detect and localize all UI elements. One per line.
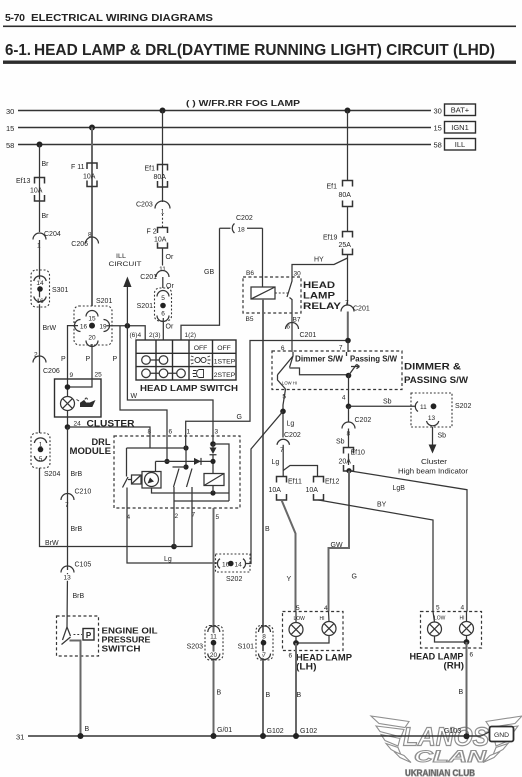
svg-text:5-70: 5-70 xyxy=(5,12,25,24)
svg-text:HI: HI xyxy=(320,616,325,622)
splice S202 pins 11/13 xyxy=(411,393,452,427)
svg-text:BrW: BrW xyxy=(43,325,57,332)
svg-text:(6)4: (6)4 xyxy=(130,332,142,339)
svg-text:(LH): (LH) xyxy=(296,662,317,673)
lamp RH hi xyxy=(460,622,474,636)
bus line 15 xyxy=(18,127,431,129)
dimmer contact xyxy=(278,352,349,375)
ground node G/01 xyxy=(211,733,217,739)
svg-text:25: 25 xyxy=(95,372,103,379)
wire BrW down-right to DRL pin2 xyxy=(40,468,175,547)
svg-text:GND: GND xyxy=(494,732,509,739)
junction ILL branch xyxy=(125,323,131,329)
svg-text:Passing S/W: Passing S/W xyxy=(350,355,397,364)
junction Sb xyxy=(346,404,352,410)
svg-text:25A: 25A xyxy=(339,242,352,249)
svg-text:Or: Or xyxy=(166,254,174,261)
svg-text:10A: 10A xyxy=(306,487,319,494)
wire B7 to dimmer pin 6 xyxy=(291,313,293,352)
svg-text:Lg: Lg xyxy=(272,459,280,466)
svg-text:Ef1: Ef1 xyxy=(145,166,156,173)
cluster lamp symbol xyxy=(61,397,75,411)
svg-text:P: P xyxy=(86,631,92,640)
svg-text:Dimmer S/W: Dimmer S/W xyxy=(295,355,343,364)
splice S201 pins 15/16/19/20 xyxy=(74,306,112,345)
wire Br from line 58 xyxy=(39,145,41,233)
dashed optional wire xyxy=(162,214,164,227)
svg-text:C210: C210 xyxy=(75,489,92,496)
ground bus 31 xyxy=(28,735,481,737)
svg-text:C201: C201 xyxy=(353,306,370,313)
svg-text:2(3): 2(3) xyxy=(149,332,161,339)
svg-text:HI: HI xyxy=(460,616,465,622)
ground node G103 xyxy=(464,733,470,739)
svg-text:30: 30 xyxy=(434,107,442,116)
DRL diode rail xyxy=(156,461,214,471)
wire oil switch to ground xyxy=(70,641,81,737)
svg-text:10A: 10A xyxy=(30,188,43,195)
svg-text:6: 6 xyxy=(161,311,165,318)
wire to relay coil B6 xyxy=(262,228,264,287)
svg-text:30: 30 xyxy=(6,107,14,116)
svg-text:HEAD LAMP & DRL(DAYTIME RUNNIN: HEAD LAMP & DRL(DAYTIME RUNNING LIGHT) C… xyxy=(34,42,495,59)
wire S201-19 to switch pin (6)4 xyxy=(107,326,146,340)
svg-text:4: 4 xyxy=(461,605,465,612)
svg-text:B: B xyxy=(266,692,271,699)
svg-text:20A: 20A xyxy=(339,459,352,466)
svg-text:S202: S202 xyxy=(455,403,471,410)
svg-text:7: 7 xyxy=(339,345,343,352)
fuse Ef1 80A left xyxy=(158,165,168,188)
svg-text:Or: Or xyxy=(166,324,174,331)
wire HY to relay pin 30 xyxy=(292,258,348,277)
svg-text:10A: 10A xyxy=(269,487,282,494)
svg-text:P: P xyxy=(86,356,91,363)
wire G relay output xyxy=(186,341,348,437)
svg-text:14: 14 xyxy=(36,280,44,287)
junction line30/Ef1 left xyxy=(160,108,166,114)
svg-text:7: 7 xyxy=(65,502,69,509)
svg-text:(RH): (RH) xyxy=(444,661,465,672)
branch to Ef12 xyxy=(283,466,317,477)
svg-text:BY: BY xyxy=(377,502,387,509)
wire to S301 xyxy=(39,240,41,433)
svg-text:13: 13 xyxy=(428,415,436,422)
lamp LH low xyxy=(289,623,303,637)
splice S204 pins 1/5 xyxy=(31,433,50,468)
svg-text:Ef10: Ef10 xyxy=(351,450,366,457)
relay coil xyxy=(251,287,275,299)
svg-text:B: B xyxy=(297,692,302,699)
svg-text:6: 6 xyxy=(289,653,293,660)
svg-text:Sb: Sb xyxy=(438,433,447,440)
svg-text:58: 58 xyxy=(434,141,442,150)
svg-text:C105: C105 xyxy=(75,562,92,569)
svg-text:11: 11 xyxy=(210,634,217,641)
svg-text:Sb: Sb xyxy=(336,439,345,446)
svg-text:80A: 80A xyxy=(339,192,352,199)
splice S202 pins 16/14 xyxy=(216,554,251,572)
wire DRL pin2/7 to BrW xyxy=(174,508,192,547)
svg-text:DIMMER &: DIMMER & xyxy=(404,362,461,373)
svg-text:RELAY: RELAY xyxy=(303,301,342,311)
svg-text:19: 19 xyxy=(99,324,107,331)
wire from line 15 down xyxy=(91,128,93,307)
watermark lanos clan xyxy=(371,716,522,763)
svg-text:5: 5 xyxy=(39,456,43,463)
DRL bottom rail xyxy=(152,488,230,493)
svg-text:13: 13 xyxy=(64,575,72,582)
svg-text:Ef13: Ef13 xyxy=(16,178,31,185)
svg-text:5: 5 xyxy=(296,605,300,612)
wire Y to LH low xyxy=(282,500,296,612)
svg-text:5: 5 xyxy=(216,514,220,521)
wire GB to switch pin 1(2) xyxy=(181,228,220,340)
svg-text:15: 15 xyxy=(88,316,96,323)
svg-text:B: B xyxy=(85,726,90,733)
fuse Ef10 20A xyxy=(344,448,354,472)
DRL pin6 wire xyxy=(166,436,168,461)
svg-text:1STEP: 1STEP xyxy=(214,359,236,366)
DRL circle component xyxy=(142,472,161,489)
arrow Sb to cluster indicator xyxy=(432,427,434,445)
svg-text:C201: C201 xyxy=(140,274,157,281)
svg-text:G102: G102 xyxy=(267,728,284,735)
svg-text:BAT+: BAT+ xyxy=(451,106,470,115)
passing contact xyxy=(346,373,352,379)
svg-text:G: G xyxy=(352,574,357,581)
connector C202 pin 8 xyxy=(348,406,350,422)
svg-text:Lg: Lg xyxy=(287,421,295,428)
relay contact xyxy=(287,277,292,313)
wire Low G to S202-14 xyxy=(246,411,283,563)
svg-text:B: B xyxy=(459,689,464,696)
svg-text:58: 58 xyxy=(6,141,14,150)
switch row3 contacts xyxy=(142,369,151,378)
wire B5 ground B xyxy=(262,299,264,736)
LH ground join xyxy=(296,636,329,644)
junction line30/Ef1 right xyxy=(345,108,351,114)
svg-text:ILL: ILL xyxy=(116,253,126,260)
DRL left branch switch xyxy=(123,448,218,563)
svg-text:BrB: BrB xyxy=(73,593,85,600)
svg-text:Y: Y xyxy=(287,576,292,583)
ground node B oil switch xyxy=(78,733,84,739)
svg-text:W: W xyxy=(131,393,138,400)
wire LH to G102 xyxy=(295,643,297,736)
lamp LH hi xyxy=(322,622,336,636)
svg-text:11: 11 xyxy=(159,266,166,273)
head lamp switch table xyxy=(136,340,236,380)
svg-text:UKRAINIAN CLUB: UKRAINIAN CLUB xyxy=(405,768,475,777)
svg-text:HY: HY xyxy=(314,257,324,264)
svg-text:11: 11 xyxy=(420,404,427,411)
fuse Ef11 10A xyxy=(277,477,287,501)
svg-text:C202: C202 xyxy=(355,417,372,424)
svg-text:C202: C202 xyxy=(284,432,301,439)
svg-text:20: 20 xyxy=(210,652,218,659)
svg-text:S201: S201 xyxy=(96,298,112,305)
svg-text:CIRCUIT: CIRCUIT xyxy=(109,261,142,268)
svg-text:BrB: BrB xyxy=(71,526,83,533)
svg-text:4: 4 xyxy=(342,395,346,402)
DRL module box xyxy=(114,436,240,508)
svg-text:MODULE: MODULE xyxy=(70,446,112,456)
svg-text:LOW HI: LOW HI xyxy=(282,381,297,386)
head lamp RH xyxy=(421,612,482,649)
splice S201 pins 5/6 xyxy=(155,288,172,321)
svg-text:2STEP: 2STEP xyxy=(214,372,236,379)
svg-text:LAMP: LAMP xyxy=(303,291,335,301)
svg-text:C203: C203 xyxy=(136,202,153,209)
svg-text:ELECTRICAL WIRING DIAGRAMS: ELECTRICAL WIRING DIAGRAMS xyxy=(31,12,213,24)
svg-text:6: 6 xyxy=(470,652,474,659)
DRL internal top rail xyxy=(127,447,187,449)
svg-text:4: 4 xyxy=(324,605,328,612)
svg-text:20: 20 xyxy=(88,335,96,342)
svg-text:S203: S203 xyxy=(187,644,203,651)
wire LgB to RH high xyxy=(349,471,467,612)
RH ground join xyxy=(435,636,467,643)
svg-text:14: 14 xyxy=(235,562,243,569)
DRL pin3 diode chain xyxy=(210,441,216,447)
fuse Ef12 10A xyxy=(314,477,324,501)
svg-text:( ) W/FR.RR FOG LAMP: ( ) W/FR.RR FOG LAMP xyxy=(186,99,301,108)
svg-text:C206: C206 xyxy=(43,368,60,375)
svg-text:High beam Indicator: High beam Indicator xyxy=(398,469,469,476)
svg-text:9: 9 xyxy=(70,372,74,379)
ground node G102 left xyxy=(260,733,266,739)
svg-text:1: 1 xyxy=(187,429,191,436)
head lamp LH xyxy=(283,612,344,651)
svg-text:C202: C202 xyxy=(236,215,253,222)
wire DRL pin5 to ground xyxy=(213,508,215,736)
svg-text:G: G xyxy=(237,414,242,421)
fuse Ef13 10A xyxy=(35,178,45,202)
svg-text:Cluster: Cluster xyxy=(421,459,448,466)
wire to dimmer pin 7 xyxy=(347,341,349,353)
svg-text:Br: Br xyxy=(42,213,50,220)
svg-text:Lg: Lg xyxy=(164,556,172,563)
lamp RH low xyxy=(428,622,442,636)
svg-text:B: B xyxy=(217,690,222,697)
svg-text:15: 15 xyxy=(434,124,442,133)
svg-text:HEAD LAMP SWITCH: HEAD LAMP SWITCH xyxy=(140,383,238,393)
svg-text:B6: B6 xyxy=(246,270,254,277)
wire pin25 internal xyxy=(68,379,93,387)
wire RH to G103 xyxy=(466,642,468,736)
head lamp relay xyxy=(243,277,301,313)
svg-text:BrB: BrB xyxy=(71,471,83,478)
head lamp icon xyxy=(193,370,204,378)
svg-text:Sb: Sb xyxy=(383,399,392,406)
wire cluster24 to DRL pin 8 xyxy=(68,427,151,448)
svg-text:S202: S202 xyxy=(226,576,242,583)
svg-text:16: 16 xyxy=(80,324,88,331)
svg-text:G/01: G/01 xyxy=(217,727,232,734)
svg-text:10A: 10A xyxy=(154,237,167,244)
wire cluster 24 to oil switch xyxy=(66,427,69,627)
svg-text:C206: C206 xyxy=(71,241,88,248)
svg-text:B5: B5 xyxy=(246,316,254,323)
svg-text:6: 6 xyxy=(169,429,173,436)
engine oil pressure switch xyxy=(57,616,99,656)
wire from line 30 right xyxy=(347,111,349,181)
svg-text:S301: S301 xyxy=(52,287,68,294)
wire W to DRL pin 3 xyxy=(127,326,213,444)
GND box xyxy=(481,732,490,736)
svg-text:Ef1: Ef1 xyxy=(327,184,338,191)
svg-text:6-1.: 6-1. xyxy=(5,42,31,59)
svg-text:Or: Or xyxy=(166,283,174,290)
DRL coil component xyxy=(204,474,224,486)
svg-text:OFF: OFF xyxy=(217,345,231,352)
svg-text:F 11: F 11 xyxy=(71,164,85,171)
wire Or to switch pin 2(3) xyxy=(162,318,164,340)
fuse F11 10A xyxy=(87,163,97,187)
svg-text:CLAN: CLAN xyxy=(414,748,488,766)
svg-text:3: 3 xyxy=(215,429,219,436)
cluster box xyxy=(55,379,102,417)
svg-text:F 2: F 2 xyxy=(147,229,157,236)
svg-text:80A: 80A xyxy=(154,174,167,181)
svg-text:2: 2 xyxy=(175,513,179,520)
wire Sb to S202 xyxy=(349,405,417,407)
svg-text:BrW: BrW xyxy=(45,540,59,547)
wire from line 30 left xyxy=(162,111,164,203)
svg-text:GB: GB xyxy=(204,269,214,276)
svg-text:SWITCH: SWITCH xyxy=(102,644,141,654)
svg-text:OFF: OFF xyxy=(194,345,208,352)
svg-text:Ef19: Ef19 xyxy=(323,235,338,242)
svg-text:10A: 10A xyxy=(83,174,96,181)
svg-text:LOW: LOW xyxy=(294,616,306,622)
svg-text:GW: GW xyxy=(331,542,343,549)
svg-text:Br: Br xyxy=(42,161,50,168)
bus line 30 xyxy=(18,110,431,112)
svg-text:S201: S201 xyxy=(137,303,153,310)
wire S201-20 to cluster pin 25 xyxy=(91,344,93,379)
junction line58/Ef13 xyxy=(37,142,43,148)
DRL middle switch xyxy=(185,448,187,467)
wire BY to RH low xyxy=(319,500,434,612)
svg-text:5: 5 xyxy=(161,295,165,302)
splice S101 pins 8/7 xyxy=(256,626,273,661)
wire G/GW to LH high xyxy=(329,471,350,612)
svg-text:S204: S204 xyxy=(44,471,60,478)
svg-text:S101: S101 xyxy=(238,644,254,651)
wire dimmer pin4 down xyxy=(348,376,350,407)
fuse Ef19 25A xyxy=(343,232,353,255)
svg-text:G102: G102 xyxy=(300,728,317,735)
switch row2 contacts xyxy=(142,356,151,365)
splice S301 pins 14/16 xyxy=(31,270,50,307)
wire S201-16 to cluster pin 9 xyxy=(68,326,79,379)
svg-text:1(2): 1(2) xyxy=(185,332,197,339)
svg-text:G103: G103 xyxy=(444,728,461,735)
cluster oil can symbol xyxy=(77,398,95,407)
fuse Ef1 80A right xyxy=(343,181,353,207)
svg-text:C204: C204 xyxy=(44,231,61,238)
svg-text:5: 5 xyxy=(436,605,440,612)
svg-text:LOW: LOW xyxy=(434,616,446,622)
fuse F2 10A xyxy=(158,228,168,249)
svg-text:LgB: LgB xyxy=(393,485,406,492)
svg-text:Ef11: Ef11 xyxy=(288,479,302,486)
svg-text:Ef12: Ef12 xyxy=(325,479,340,486)
wire P branch to DRL pin 6 xyxy=(120,326,167,436)
svg-text:6: 6 xyxy=(281,345,285,352)
svg-text:18: 18 xyxy=(238,227,246,234)
svg-text:7: 7 xyxy=(262,652,266,659)
svg-text:PASSING S/W: PASSING S/W xyxy=(404,375,468,386)
svg-text:15: 15 xyxy=(6,124,14,133)
svg-text:8: 8 xyxy=(262,634,266,641)
svg-text:P: P xyxy=(61,356,66,363)
dimmer and passing switch xyxy=(272,351,402,390)
svg-text:HEAD: HEAD xyxy=(303,280,335,290)
arrow to ILL circuit xyxy=(126,287,128,326)
junction line15/F11 xyxy=(89,125,95,131)
connector C204 pin 1 xyxy=(33,233,46,239)
ground node G102 right xyxy=(293,733,299,739)
svg-text:30: 30 xyxy=(294,271,302,278)
DRL small box component xyxy=(132,475,142,484)
bus line 58 xyxy=(18,144,431,146)
parking lamp icon xyxy=(191,356,211,364)
wire dimmer pin5 Lg xyxy=(283,389,286,438)
svg-text:31: 31 xyxy=(16,733,24,742)
svg-text:C201: C201 xyxy=(300,332,317,339)
svg-text:P: P xyxy=(113,356,118,363)
svg-text:IGN1: IGN1 xyxy=(451,123,469,132)
svg-text:B: B xyxy=(265,526,270,533)
svg-text:ILL: ILL xyxy=(455,140,465,149)
splice S203 pins 11/20 xyxy=(205,626,223,661)
